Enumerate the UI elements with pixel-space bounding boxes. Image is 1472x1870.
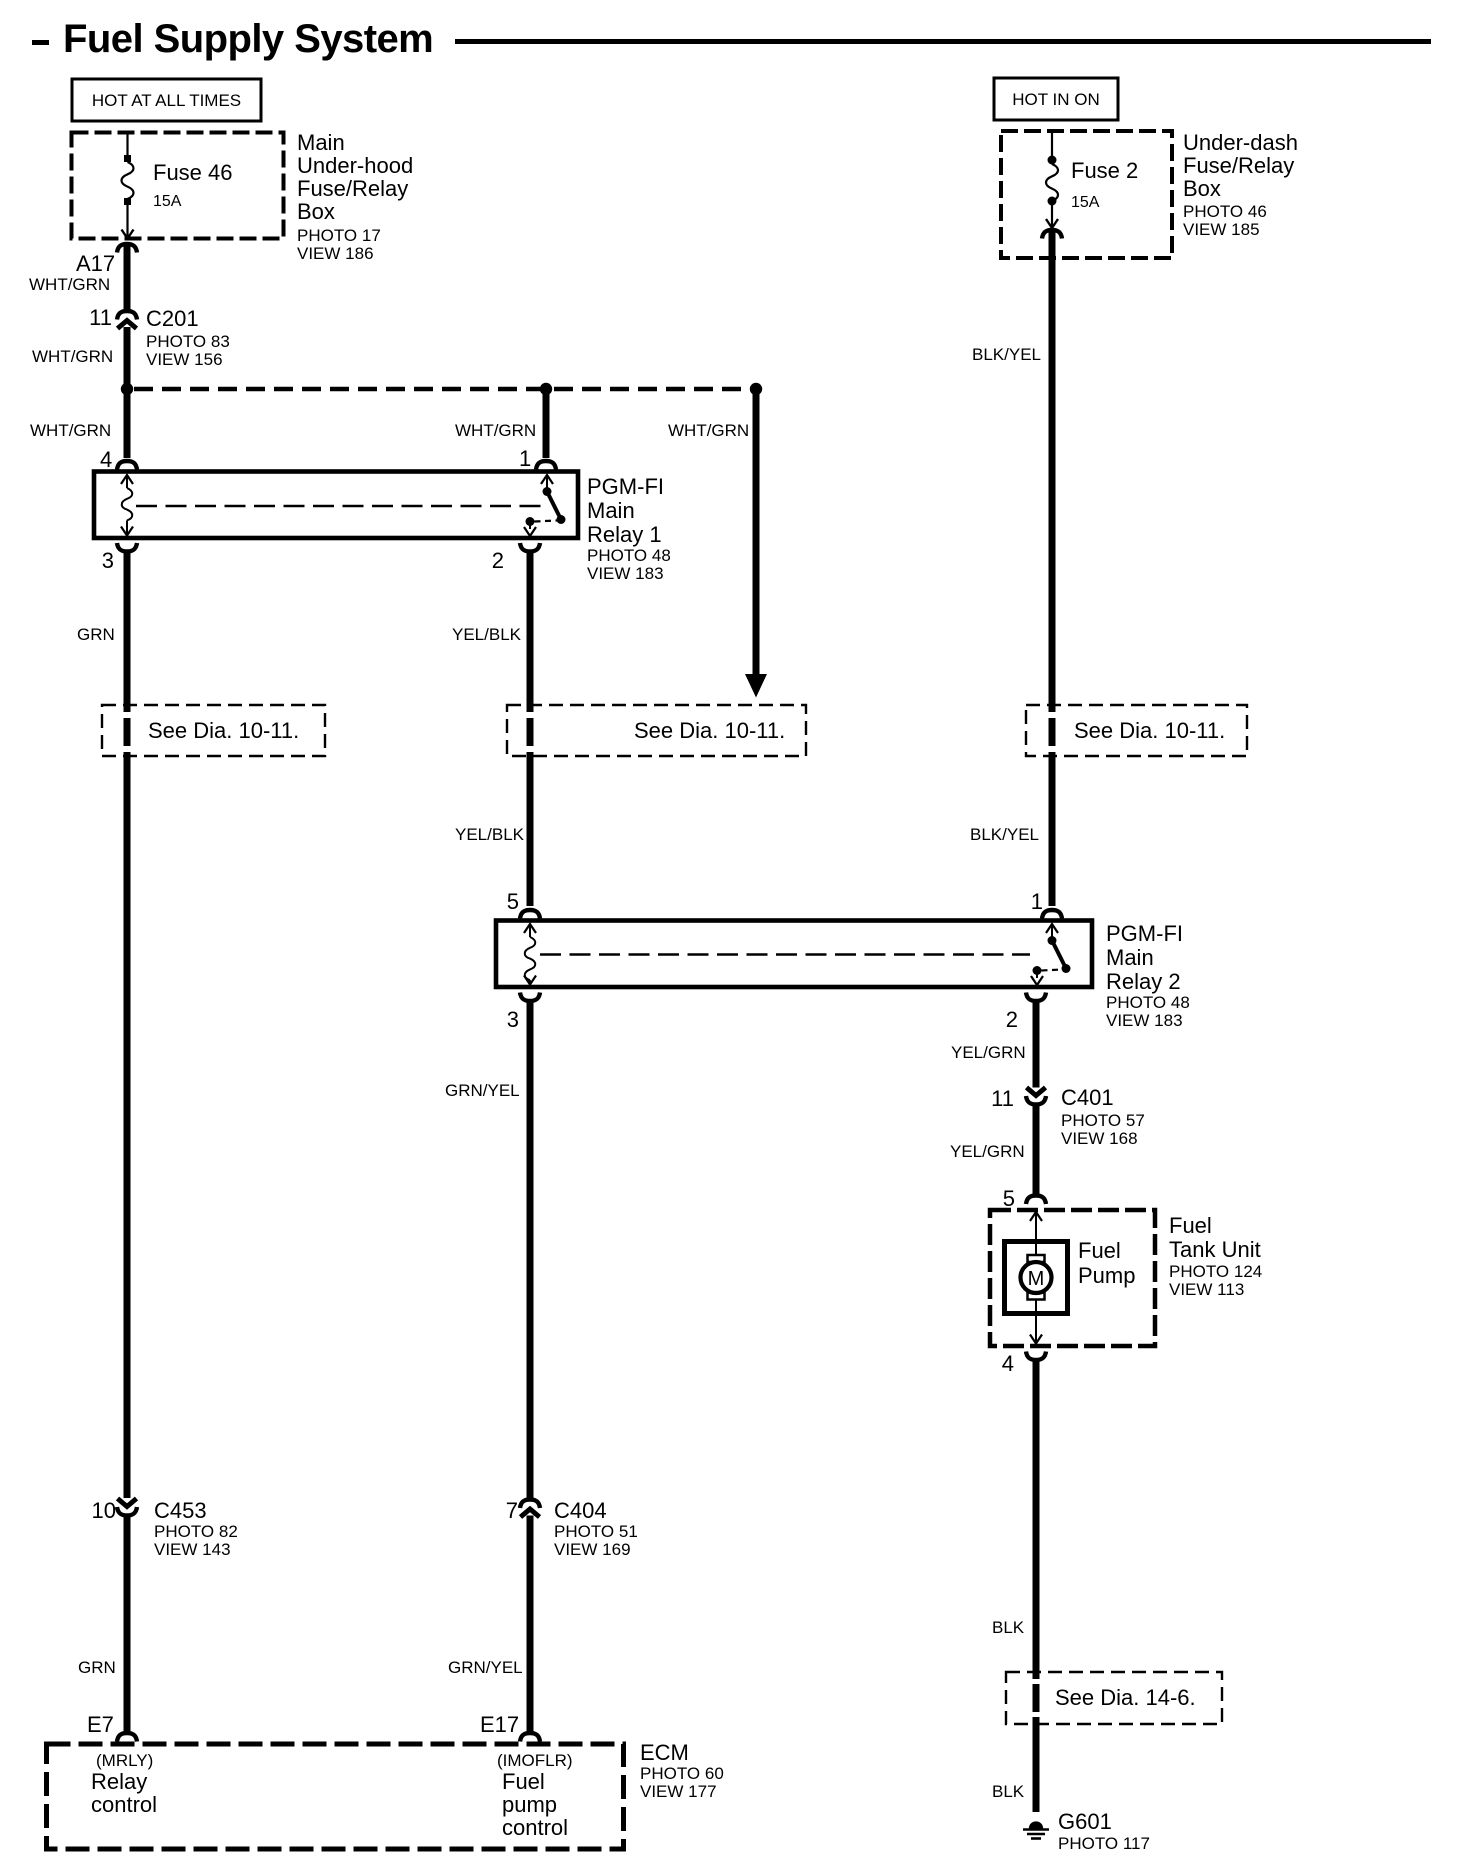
wire WHT/GRN branch with arrow (to See Dia. 10-11) (668, 393, 767, 698)
svg-text:(IMOFLR): (IMOFLR) (497, 1751, 573, 1770)
label block: Main Under-hood Fuse/Relay Box PHOTO 17 VIEW 186 (297, 130, 413, 263)
relay2 pin 2 (1006, 993, 1046, 1033)
reference box See Dia. 10-11 (middle) (507, 705, 806, 756)
svg-text:4: 4 (1002, 1351, 1014, 1376)
svg-text:2: 2 (1006, 1007, 1018, 1032)
svg-text:WHT/GRN: WHT/GRN (668, 421, 749, 440)
svg-text:(MRLY): (MRLY) (96, 1751, 153, 1770)
wire WHT/GRN (C201 to junction) (32, 327, 127, 385)
svg-text:Fuel: Fuel (502, 1769, 545, 1794)
wire GRN through box (124, 718, 131, 746)
wire GRN/YEL (relay2 pin3 down to C404) (445, 1000, 530, 1499)
svg-text:Under-hood: Under-hood (297, 153, 413, 178)
wire BLK/YEL through see-dia box (1049, 718, 1056, 746)
svg-text:Main: Main (1106, 945, 1154, 970)
svg-text:PHOTO 60: PHOTO 60 (640, 1764, 724, 1783)
svg-text:Fuel Supply System: Fuel Supply System (63, 17, 433, 61)
ECM pin function (IMOFLR) Fuel pump control (497, 1751, 573, 1840)
svg-text:Fuel: Fuel (1078, 1238, 1121, 1263)
svg-text:VIEW 185: VIEW 185 (1183, 220, 1260, 239)
svg-text:PHOTO 83: PHOTO 83 (146, 332, 230, 351)
svg-text:YEL/BLK: YEL/BLK (455, 825, 525, 844)
svg-text:GRN/YEL: GRN/YEL (448, 1658, 523, 1677)
svg-text:VIEW 113: VIEW 113 (1169, 1280, 1244, 1299)
wire BLK through box (1033, 1684, 1040, 1712)
svg-text:VIEW 156: VIEW 156 (146, 350, 223, 369)
svg-text:GRN: GRN (78, 1658, 116, 1677)
wire BLK (to ground) (992, 1717, 1036, 1812)
svg-text:Under-dash: Under-dash (1183, 130, 1298, 155)
svg-text:BLK: BLK (992, 1618, 1025, 1637)
svg-text:GRN/YEL: GRN/YEL (445, 1081, 520, 1100)
svg-text:3: 3 (507, 1007, 519, 1032)
svg-text:3: 3 (102, 548, 114, 573)
relay1 internal dashed link (136, 505, 546, 507)
label HOT IN ON (994, 78, 1118, 120)
dashed bus wire WHT/GRN (134, 387, 756, 392)
svg-text:PGM-FI: PGM-FI (587, 474, 664, 499)
svg-text:VIEW 183: VIEW 183 (1106, 1011, 1183, 1030)
svg-text:15A: 15A (1071, 194, 1100, 211)
fuse/relay box: Under-dash Fuse/Relay Box (dashed) (1001, 131, 1172, 258)
relay2 label block (1106, 921, 1190, 1030)
svg-text:VIEW 183: VIEW 183 (587, 564, 664, 583)
svg-text:PHOTO 48: PHOTO 48 (1106, 993, 1190, 1012)
svg-text:HOT AT ALL TIMES: HOT AT ALL TIMES (92, 91, 241, 110)
relay2 pin 1 fork (1031, 889, 1062, 919)
connector C453 pin 10 (92, 1498, 238, 1559)
svg-text:WHT/GRN: WHT/GRN (32, 347, 113, 366)
wire BLK (pin4 down to See Dia 14-6) (992, 1359, 1036, 1680)
svg-text:WHT/GRN: WHT/GRN (455, 421, 536, 440)
svg-text:Relay: Relay (91, 1769, 147, 1794)
svg-text:15A: 15A (153, 193, 182, 210)
fuel tank unit label block (1169, 1213, 1262, 1299)
svg-text:See Dia. 10-11.: See Dia. 10-11. (634, 718, 785, 743)
relay1 coil (121, 475, 133, 536)
svg-text:BLK/YEL: BLK/YEL (970, 825, 1039, 844)
connector C201 pin 11 (89, 305, 230, 369)
svg-text:PGM-FI: PGM-FI (1106, 921, 1183, 946)
fuel pump motor (1005, 1212, 1136, 1344)
svg-text:G601: G601 (1058, 1809, 1112, 1834)
svg-text:PHOTO 48: PHOTO 48 (587, 546, 671, 565)
svg-text:4: 4 (100, 447, 112, 472)
svg-text:M: M (1028, 1268, 1045, 1290)
wire WHT/GRN to relay1 pin 4 (30, 393, 137, 472)
ECM label block (640, 1740, 724, 1801)
reference box See Dia. 10-11 (left) (102, 705, 325, 756)
title: Fuel Supply System (32, 17, 1431, 61)
svg-text:Main: Main (587, 498, 635, 523)
ground G601 (1023, 1809, 1150, 1853)
wire GRN/YEL (C404 to ECM E17) (448, 1516, 530, 1732)
svg-text:C201: C201 (146, 306, 199, 331)
ECM pin function (MRLY) Relay control (91, 1751, 157, 1817)
relay2 internal dashed link (540, 953, 1030, 955)
svg-text:pump: pump (502, 1792, 557, 1817)
svg-text:BLK/YEL: BLK/YEL (972, 345, 1041, 364)
reference box See Dia. 14-6 (1006, 1672, 1222, 1724)
svg-text:Tank Unit: Tank Unit (1169, 1237, 1261, 1262)
svg-text:Main: Main (297, 130, 345, 155)
svg-text:7: 7 (506, 1498, 518, 1523)
wire YEL/GRN (C401 to fuel tank unit pin 5) (950, 1103, 1046, 1211)
wire YEL/GRN (relay2 pin2 to C401) (951, 1000, 1036, 1088)
svg-text:E7: E7 (87, 1712, 114, 1737)
svg-text:PHOTO 17: PHOTO 17 (297, 226, 381, 245)
relay2 pin 3 (507, 993, 540, 1033)
wire GRN (relay1 pin3 down) (77, 550, 127, 712)
svg-text:PHOTO 51: PHOTO 51 (554, 1522, 638, 1541)
junction node (right branch) (750, 383, 762, 395)
svg-text:Pump: Pump (1078, 1263, 1135, 1288)
svg-text:C404: C404 (554, 1498, 607, 1523)
fuse Fuse 2 15A (1046, 133, 1138, 228)
svg-text:C401: C401 (1061, 1085, 1114, 1110)
svg-text:Fuse/Relay: Fuse/Relay (1183, 153, 1294, 178)
fuel tank unit pin 4 (1002, 1351, 1046, 1376)
svg-text:YEL/GRN: YEL/GRN (951, 1043, 1026, 1062)
svg-text:Fuse 46: Fuse 46 (153, 160, 233, 185)
svg-text:VIEW 186: VIEW 186 (297, 244, 374, 263)
svg-text:PHOTO 57: PHOTO 57 (1061, 1111, 1145, 1130)
svg-text:11: 11 (991, 1086, 1014, 1111)
svg-text:Fuel: Fuel (1169, 1213, 1212, 1238)
svg-text:PHOTO 117: PHOTO 117 (1058, 1834, 1150, 1853)
svg-text:Fuse 2: Fuse 2 (1071, 158, 1138, 183)
wire WHT/GRN to relay1 pin 1 (455, 393, 556, 471)
svg-text:11: 11 (89, 305, 112, 330)
ECM box (dashed) (47, 1744, 624, 1849)
svg-text:YEL/GRN: YEL/GRN (950, 1142, 1025, 1161)
terminal E7 (87, 1712, 137, 1742)
svg-text:PHOTO 124: PHOTO 124 (1169, 1262, 1262, 1281)
svg-text:Relay 1: Relay 1 (587, 522, 662, 547)
reference box See Dia. 10-11 (right) (1026, 705, 1247, 756)
svg-text:VIEW 177: VIEW 177 (640, 1782, 717, 1801)
wire YEL/BLK through box (527, 718, 534, 746)
terminal fork (fuse2 output) (1042, 230, 1062, 239)
fuse Fuse 46 15A (122, 134, 233, 239)
wire YEL/BLK into relay2 pin 5 (507, 889, 540, 919)
svg-text:E17: E17 (480, 1712, 519, 1737)
svg-text:WHT/GRN: WHT/GRN (29, 275, 110, 294)
terminal A17 (fork) (76, 244, 137, 276)
svg-text:5: 5 (1003, 1186, 1015, 1211)
wire BLK/YEL (fuse2 down to See Dia) (972, 232, 1052, 712)
svg-text:See Dia. 10-11.: See Dia. 10-11. (148, 718, 299, 743)
relay2 coil (524, 924, 536, 985)
relay1 pin 3 (102, 543, 137, 573)
relay2 switch (1031, 924, 1071, 985)
svg-text:BLK: BLK (992, 1782, 1025, 1801)
label block: Under-dash Fuse/Relay Box PHOTO 46 VIEW 185 (1183, 130, 1298, 239)
component box: Fuel Tank Unit (dashed) (990, 1210, 1155, 1346)
svg-text:C453: C453 (154, 1498, 207, 1523)
svg-text:control: control (91, 1792, 157, 1817)
connector C404 pin 7 (506, 1498, 638, 1559)
svg-text:YEL/BLK: YEL/BLK (452, 625, 522, 644)
label HOT AT ALL TIMES (72, 79, 261, 121)
svg-text:VIEW 143: VIEW 143 (154, 1540, 231, 1559)
relay1 label block (587, 474, 671, 583)
fuse/relay box: Main Under-hood Fuse/Relay Box (dashed) (72, 133, 284, 239)
relay PGM-FI Main Relay 2 (496, 921, 1092, 988)
svg-text:control: control (502, 1815, 568, 1840)
svg-text:1: 1 (519, 446, 531, 471)
terminal E17 (480, 1712, 540, 1742)
svg-text:Box: Box (297, 199, 335, 224)
relay1 switch (524, 475, 566, 536)
svg-text:WHT/GRN: WHT/GRN (30, 421, 111, 440)
svg-text:2: 2 (492, 548, 504, 573)
svg-text:1: 1 (1031, 889, 1043, 914)
relay1 pin 2 (492, 543, 540, 573)
relay PGM-FI Main Relay 1 (94, 472, 578, 539)
svg-text:A17: A17 (76, 251, 115, 276)
svg-text:VIEW 169: VIEW 169 (554, 1540, 631, 1559)
svg-text:See Dia. 10-11.: See Dia. 10-11. (1074, 718, 1225, 743)
svg-text:HOT IN ON: HOT IN ON (1012, 90, 1100, 109)
junction node (middle) (540, 383, 552, 395)
svg-text:PHOTO 82: PHOTO 82 (154, 1522, 238, 1541)
svg-text:VIEW 168: VIEW 168 (1061, 1129, 1138, 1148)
svg-text:Relay 2: Relay 2 (1106, 969, 1181, 994)
svg-text:5: 5 (507, 889, 519, 914)
svg-text:ECM: ECM (640, 1740, 689, 1765)
wire YEL/BLK (relay1 pin2 down) (452, 550, 530, 712)
wire WHT/GRN (A17 to C201) (29, 246, 127, 310)
svg-text:PHOTO 46: PHOTO 46 (1183, 202, 1267, 221)
connector C401 pin 11 (991, 1085, 1145, 1148)
svg-text:Box: Box (1183, 176, 1221, 201)
svg-text:See Dia. 14-6.: See Dia. 14-6. (1055, 1685, 1196, 1710)
svg-text:GRN: GRN (77, 625, 115, 644)
svg-text:Fuse/Relay: Fuse/Relay (297, 176, 408, 201)
junction node (left) (121, 383, 133, 395)
svg-text:10: 10 (92, 1498, 116, 1523)
wire GRN (C453 to ECM E7) (78, 1514, 127, 1731)
